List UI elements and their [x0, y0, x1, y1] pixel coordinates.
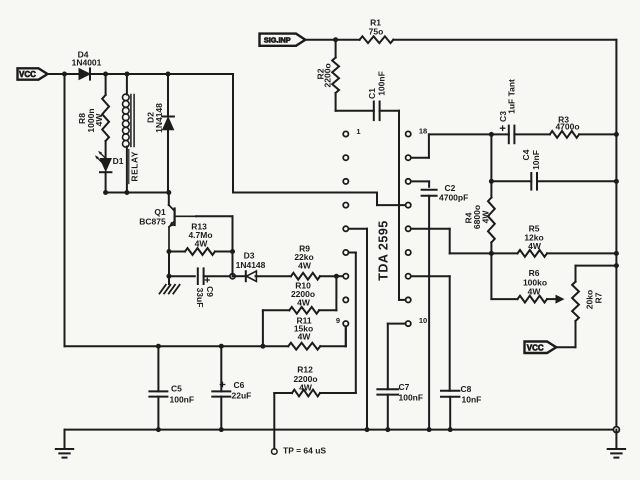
svg-text:1N4148: 1N4148 [236, 260, 266, 270]
wire pin 6 drop [349, 252, 356, 254]
junction C4 right [614, 179, 619, 184]
label RELAY underline [128, 150, 130, 184]
wire C2 to ground bus [428, 196, 430, 430]
wire right ground stub [615, 430, 617, 449]
wire C1 to pin 11 [380, 110, 399, 112]
wire tag to junction [305, 39, 335, 41]
pin 15 of U1 [406, 203, 411, 208]
junction D1 bottom [103, 190, 108, 195]
resistor R9 [291, 273, 320, 280]
svg-text:R7: R7 [593, 292, 603, 303]
wire relay bottom row [106, 192, 169, 194]
wire R2 to C1 [335, 93, 337, 111]
resistor R8 [102, 95, 109, 141]
ground hatched at Q1 [160, 285, 166, 294]
wire pin 12 to C8 [411, 275, 450, 277]
svg-text:VCC: VCC [19, 70, 36, 79]
wiper arrow of R6 [547, 298, 560, 300]
polarity + of C9 [205, 279, 209, 281]
wire C3 junction down to C4 row [490, 134, 492, 181]
junction input node [333, 37, 338, 42]
svg-text:BC875: BC875 [139, 217, 166, 227]
polarity + of C6 [220, 384, 224, 386]
svg-text:75o: 75o [369, 27, 384, 37]
junction C3 row [489, 132, 494, 137]
pin 7 of U1 [343, 274, 348, 279]
wire R8 to D1 [105, 141, 107, 159]
wire emitter to C9 row [168, 252, 170, 277]
svg-text:4W: 4W [94, 113, 104, 127]
junction C7 bottom [385, 427, 390, 432]
LED D1 arrows [97, 157, 103, 163]
resistor R4 [488, 198, 495, 243]
junction R3 right [614, 132, 619, 137]
svg-text:1uF Tant: 1uF Tant [506, 79, 516, 114]
wire R9 to junction [320, 275, 336, 277]
wire pin 16 to C2 [411, 180, 429, 182]
svg-text:100nF: 100nF [377, 71, 387, 96]
resistor R13 [185, 248, 215, 255]
wire vertical x=232.5 between R13 and C9 [232, 252, 234, 277]
svg-text:10: 10 [419, 316, 427, 325]
junction bus right end [613, 427, 619, 433]
wire D1 to row [105, 172, 107, 192]
svg-text:18: 18 [419, 127, 427, 136]
junction C6 top [219, 344, 224, 349]
svg-text:4700pF: 4700pF [439, 193, 468, 203]
wire supply corner to mid rail [65, 345, 289, 347]
svg-text:4W: 4W [299, 383, 313, 393]
resistor R7 potentiometer [572, 282, 579, 321]
wire left ground stub [64, 430, 66, 449]
wire R13 leads [169, 251, 185, 253]
svg-text:4W: 4W [297, 298, 311, 308]
relay core lines [130, 95, 132, 147]
wire junction to R1 [336, 39, 360, 41]
junction C8 bottom [448, 427, 453, 432]
wire R11 to pin 9 riser [320, 345, 346, 347]
polarity + of C3 [500, 127, 504, 129]
wire D2 to row [167, 130, 169, 193]
junction R10 drop [260, 344, 265, 349]
wire C7 to ground bus [387, 395, 389, 430]
wire junction to pin 7 [336, 275, 342, 277]
pin 4 of U1 [343, 203, 348, 208]
junction R5 right [614, 251, 619, 256]
wire R7 top to right bus [575, 266, 577, 282]
svg-text:4W: 4W [298, 261, 312, 271]
capacitor C7 [377, 388, 398, 390]
svg-text:C8: C8 [461, 384, 472, 394]
resistor R10 [289, 307, 319, 314]
wire rail to D4 [65, 73, 80, 75]
svg-text:1N4148: 1N4148 [154, 103, 164, 133]
svg-text:4W: 4W [528, 287, 542, 297]
svg-text:100nF: 100nF [170, 395, 195, 405]
diode D4 [79, 69, 90, 80]
wire R4 to R5 row [490, 243, 492, 254]
wire C4 junction to R4 [490, 181, 492, 197]
pin 9 of U1 [343, 321, 348, 326]
resistor R6 [518, 296, 548, 303]
wire D4 to rail junctions [90, 73, 233, 75]
wire base to R13 right [196, 215, 233, 217]
capacitor C9 [197, 268, 199, 284]
junction R8 top [103, 72, 108, 77]
svg-text:33uF: 33uF [195, 288, 205, 308]
junction C9 left [167, 274, 172, 279]
junction C6 bottom [219, 427, 224, 432]
svg-text:4W: 4W [298, 332, 312, 342]
wire C5 top lead [157, 346, 159, 391]
wire C9 left lead [169, 275, 195, 277]
pin 2 of U1 [343, 155, 348, 160]
diode D2 [162, 116, 174, 118]
wire R10 left to mid rail [263, 309, 289, 311]
junction R4/R5/R6 [489, 251, 494, 256]
ground right [608, 448, 625, 450]
diode D3 [245, 271, 247, 281]
junction R7 top [614, 263, 619, 268]
wire C9 junction to D3 [233, 275, 245, 277]
svg-text:C9: C9 [205, 286, 215, 297]
transistor Q1 [169, 205, 175, 211]
wire rail to relay coil [126, 74, 128, 95]
capacitor C2 [422, 189, 437, 191]
resistor R3 [550, 131, 579, 138]
svg-text:Q1: Q1 [154, 207, 166, 217]
svg-text:1: 1 [356, 127, 360, 136]
wire to local ground [168, 276, 170, 284]
relay coil K1 [123, 94, 130, 101]
resistor R5 [518, 250, 548, 257]
wire VCC tag to rail [48, 73, 65, 75]
junction C9 right [230, 274, 235, 279]
ground left [56, 448, 73, 450]
node VCC input tag [18, 68, 48, 79]
pin 14 of U1 [406, 226, 411, 231]
svg-text:4700o: 4700o [555, 122, 579, 132]
svg-text:R6: R6 [529, 268, 540, 278]
svg-text:C7: C7 [399, 382, 410, 392]
wire R6 branch down [490, 253, 492, 299]
svg-text:VCC: VCC [527, 343, 544, 352]
wire C6 top lead [220, 346, 222, 391]
svg-text:C4: C4 [521, 149, 531, 160]
junction R13 right [230, 249, 235, 254]
junction Q1 collector node [166, 190, 171, 195]
junction D2 top [166, 72, 171, 77]
svg-text:4W: 4W [480, 210, 490, 224]
svg-text:1N4001: 1N4001 [72, 57, 102, 67]
node VCC tag lower right [525, 342, 557, 354]
pin 8 of U1 [343, 297, 348, 302]
node TP test point [272, 449, 278, 455]
svg-text:100nF: 100nF [399, 393, 424, 403]
wire junction down to R10 [335, 276, 337, 310]
wire R5 to right bus [547, 252, 616, 254]
svg-text:D1: D1 [113, 156, 124, 166]
capacitor C6 [212, 390, 230, 392]
wire right bus [615, 40, 617, 430]
pin 3 of U1 [343, 179, 348, 184]
svg-text:R12: R12 [297, 365, 313, 375]
junction C5 bottom [156, 427, 161, 432]
resistor R1 [360, 36, 394, 43]
wire pin 9 drop [345, 327, 347, 347]
wire R3 to right bus [579, 133, 616, 135]
svg-text:RELAY: RELAY [130, 151, 140, 182]
junction C5 top [156, 344, 161, 349]
wire rail corner to pin15 feed [232, 74, 234, 193]
wire junction to R2 [335, 40, 337, 58]
junction R9/R10/pin7 [334, 274, 339, 279]
capacitor C8 [441, 390, 459, 392]
wire C5 bottom lead [157, 397, 159, 430]
svg-text:C6: C6 [234, 380, 245, 390]
pin 11 of U1 [406, 297, 411, 302]
node SIG.INP tag [260, 34, 306, 46]
svg-text:10nF: 10nF [462, 395, 482, 405]
wire rail to D2 [167, 74, 169, 117]
pin 18 of U1 [406, 131, 411, 136]
pin 12 of U1 [406, 274, 411, 279]
wire rail to R8 [105, 74, 107, 95]
svg-text:4W: 4W [528, 241, 542, 251]
wire C8 to ground bus [449, 397, 451, 430]
pin 5 of U1 [343, 226, 348, 231]
svg-text:2200o: 2200o [322, 63, 332, 87]
wire collector drop [168, 193, 170, 206]
wire R1 to right bus [393, 39, 616, 41]
wire C9 right lead [204, 275, 233, 277]
pin 1 of U1 [343, 131, 348, 136]
junction relay bottom [124, 190, 129, 195]
wire R12 left drop to TP [274, 392, 292, 394]
wire pin 10 to C7 [388, 323, 405, 325]
svg-text:C5: C5 [171, 384, 182, 394]
pin 10 of U1 [406, 321, 411, 326]
svg-text:22uF: 22uF [232, 391, 252, 401]
wire pin 5 to ground bus [349, 228, 367, 230]
resistor R12 [292, 390, 320, 397]
wire D3 to R9 [256, 275, 292, 277]
wire left supply drop x=64.5 [64, 74, 66, 346]
wire pin 17 up to C3 row [411, 157, 429, 159]
wire R7 bottom to VCC tag [575, 321, 577, 347]
wire C3 leads [491, 133, 508, 135]
pin 17 of U1 [406, 155, 411, 160]
capacitor C3 [508, 126, 510, 144]
svg-text:10nF: 10nF [531, 150, 541, 170]
svg-text:SIG.INP: SIG.INP [264, 36, 291, 45]
wire C6 bottom lead [220, 397, 222, 430]
pin 6 of U1 [343, 250, 348, 255]
junction pin5 drop [365, 427, 370, 432]
capacitor C5 [149, 390, 167, 392]
wire R12 right riser to pin 6 [320, 392, 356, 394]
capacitor C4 [530, 173, 532, 190]
junction R13 left [167, 249, 172, 254]
svg-text:C2: C2 [445, 183, 456, 193]
svg-text:TP = 64 uS: TP = 64 uS [283, 446, 326, 456]
LED D1 [100, 159, 111, 172]
svg-text:TDA 2595: TDA 2595 [377, 220, 391, 281]
svg-text:D3: D3 [244, 251, 255, 261]
pin 16 of U1 [406, 179, 411, 184]
svg-text:4W: 4W [195, 239, 209, 249]
wire pin 14 to R5 row [411, 228, 450, 230]
junction C2 bottom [427, 427, 432, 432]
resistor R2 [332, 58, 339, 94]
wire ground bus [65, 429, 617, 431]
wire C4 to right bus [537, 180, 616, 182]
svg-text:C1: C1 [367, 88, 377, 99]
resistor R11 [288, 343, 320, 350]
wire relay coil to row [126, 147, 128, 193]
junction C4 row [489, 179, 494, 184]
svg-text:9: 9 [336, 316, 340, 325]
junction VCC rail left [62, 72, 67, 77]
wire C4 left lead [491, 180, 531, 182]
pin 13 of U1 [406, 250, 411, 255]
capacitor C1 [373, 102, 375, 121]
junction relay top [125, 72, 130, 77]
